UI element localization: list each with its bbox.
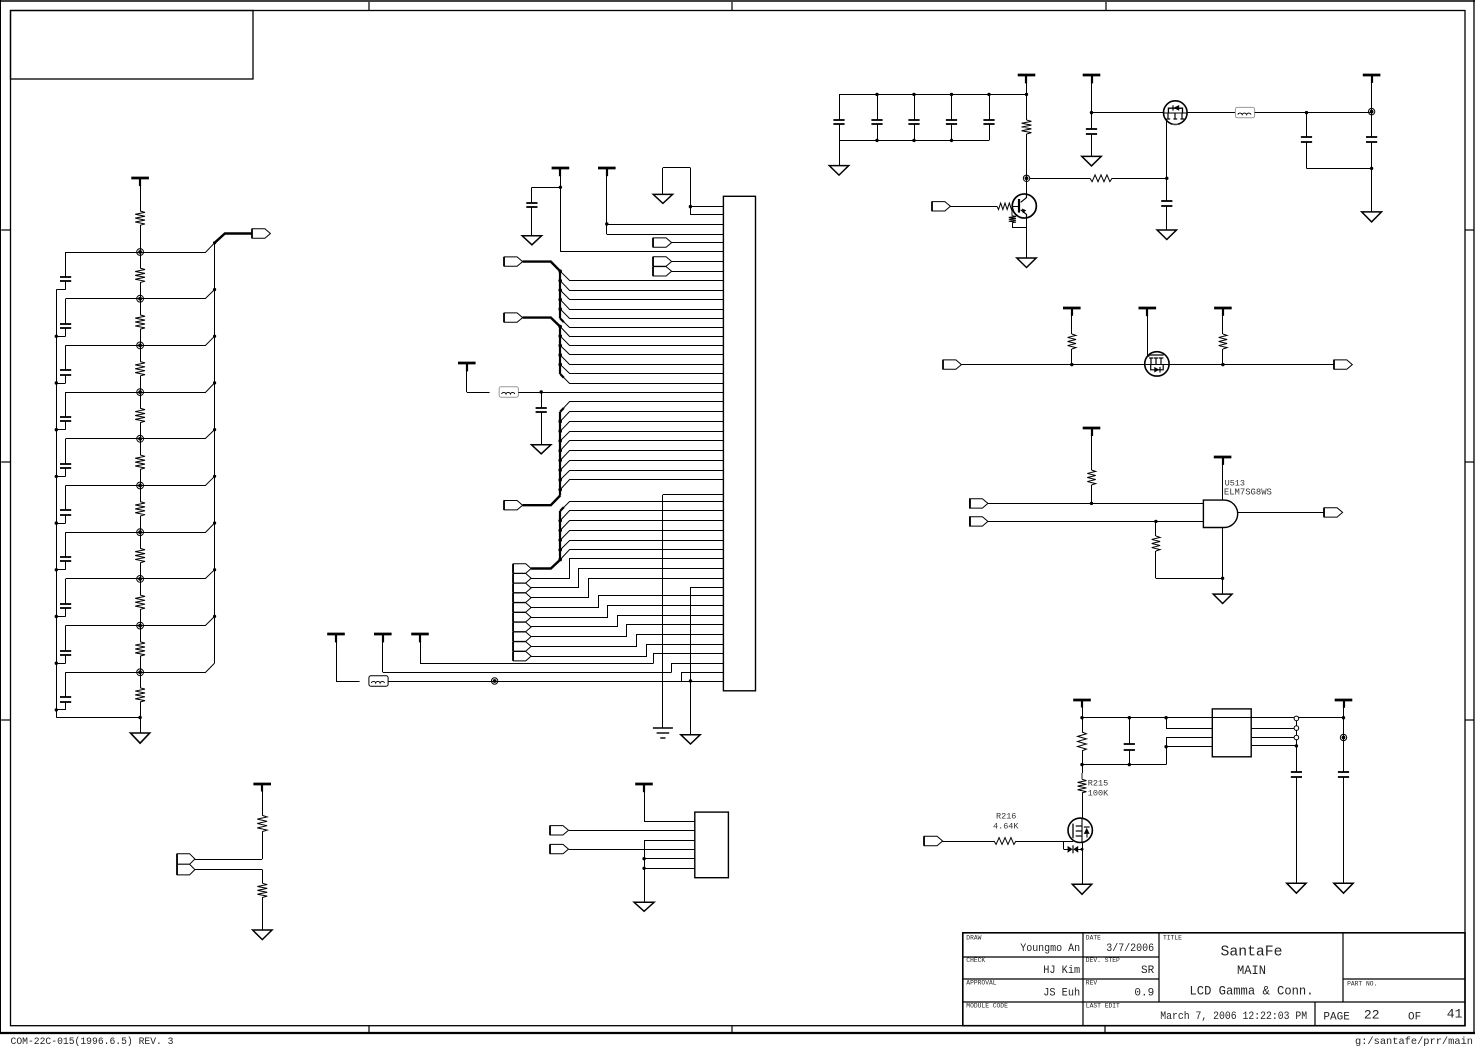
power rail Vv2 (374, 633, 392, 636)
connector output g_out (1324, 508, 1342, 517)
wire riser B (672, 664, 724, 673)
node V5 (137, 435, 144, 442)
wire drain (1166, 120, 1168, 202)
capacitor Cb1 (839, 94, 841, 119)
wire stair (531, 616, 723, 627)
junction (213, 475, 216, 478)
power rail Vv3 (411, 633, 429, 636)
wire (663, 494, 724, 496)
connector input base (932, 202, 950, 211)
wire node2 right (140, 290, 215, 299)
junction (1080, 763, 1083, 766)
connector input g_in1 (970, 499, 988, 508)
ground (522, 236, 541, 245)
power rail g1 (1083, 427, 1101, 430)
junction (605, 222, 608, 225)
ground (1157, 230, 1176, 240)
capacitor C_lad6 (65, 486, 67, 511)
wire branch (560, 511, 723, 521)
junction (213, 521, 216, 524)
resistor R_lad8 (135, 595, 145, 609)
wire (140, 672, 142, 688)
connector input bc1 (550, 826, 568, 835)
wire node4 right (140, 383, 215, 393)
wire (466, 363, 468, 392)
wire branch (560, 521, 723, 531)
wire (140, 439, 142, 455)
svg-text:PAGE: PAGE (1323, 1011, 1350, 1023)
wire branch (560, 271, 723, 280)
wire (140, 376, 142, 392)
junction (558, 363, 562, 367)
wire node6 left (66, 485, 141, 487)
wire pin2R (1251, 728, 1296, 730)
resistor R_lad2 (135, 315, 145, 329)
svg-text:4.64K: 4.64K (993, 822, 1019, 832)
capacitor C_br (1129, 718, 1131, 744)
junction (55, 381, 58, 384)
junction (875, 93, 878, 96)
junction (1370, 167, 1373, 170)
wire (140, 423, 142, 439)
wire (1255, 112, 1372, 114)
wire branch (560, 451, 723, 461)
op-amp U513 AND gate (1203, 500, 1237, 527)
wire (644, 784, 646, 821)
wire (140, 626, 142, 642)
wire (140, 345, 142, 361)
wire node1 right (140, 243, 215, 253)
connector input gate_br (924, 836, 942, 845)
junction (1080, 716, 1083, 719)
wire (262, 898, 264, 931)
ground (1334, 883, 1353, 893)
ground (1082, 156, 1101, 166)
wire thick feeder D (531, 560, 560, 569)
resistor R215 (1081, 773, 1083, 779)
node V3 (137, 342, 144, 349)
connector output rowR (1334, 360, 1352, 369)
svg-text:TITLE: TITLE (1163, 935, 1182, 942)
wire branch (560, 336, 723, 345)
capacitor C_v5 (1086, 128, 1097, 130)
wire ladder right bus (214, 243, 216, 663)
connector input pin8 (653, 267, 671, 276)
title area top-left box (11, 11, 254, 80)
bus D (559, 511, 561, 560)
wire stair (531, 569, 723, 588)
junction (1128, 716, 1131, 719)
junction (55, 475, 58, 478)
wire node5 left (66, 438, 141, 440)
junction (138, 716, 141, 719)
resistor R_b (997, 203, 1013, 209)
node V10 (137, 669, 144, 676)
power rail VDD ladder (131, 177, 149, 180)
junction (1090, 502, 1093, 505)
capacitor C_lad10 (65, 672, 67, 697)
wire node9 left (66, 625, 141, 627)
junction (213, 615, 216, 618)
wire stair (531, 645, 723, 657)
resistor R_g (1090, 175, 1112, 182)
junction (558, 279, 562, 283)
connector input g_in2 (970, 517, 988, 526)
wire to gate (1030, 178, 1090, 180)
connector CN5 body (723, 196, 755, 691)
wire (1071, 308, 1073, 334)
IC CN_bc body (695, 812, 729, 878)
connector input pin7 (653, 257, 671, 266)
transistor Q_m MOSFET mid (1145, 352, 1169, 376)
wire (1166, 737, 1168, 764)
wire pin1R (1251, 717, 1343, 719)
power rail g2 (1214, 456, 1232, 459)
bus A (559, 271, 561, 318)
capacitor Cb5 (989, 94, 991, 119)
wire (140, 609, 142, 625)
ground (1362, 212, 1382, 222)
wire (1343, 700, 1345, 772)
wire node8 right (140, 570, 215, 579)
junction (642, 867, 645, 870)
capacitor Cb2 (877, 94, 879, 119)
capacitor C_lad5 (65, 439, 67, 464)
wire (140, 469, 142, 485)
junction (213, 428, 216, 431)
svg-text:LAST EDIT: LAST EDIT (1086, 1003, 1120, 1010)
capacitor C_vcc (532, 187, 561, 189)
wire branch (560, 432, 723, 441)
junction (558, 529, 562, 533)
wire (1166, 718, 1168, 729)
junction (558, 468, 562, 472)
wire (140, 283, 142, 299)
svg-text:SR: SR (1141, 965, 1155, 977)
node V6 (137, 482, 144, 489)
junction (558, 269, 562, 273)
ferrite bead FB3 (1235, 107, 1254, 117)
junction (558, 298, 562, 302)
junction (1164, 745, 1167, 748)
junction (213, 241, 216, 244)
junction (55, 662, 58, 665)
wire (140, 486, 142, 502)
junction (55, 335, 58, 338)
wire (518, 392, 723, 394)
wire thick feeder B (523, 318, 561, 327)
junction (1305, 111, 1308, 114)
wire branch (560, 422, 723, 432)
junction (558, 325, 562, 329)
ground (634, 902, 654, 911)
resistor R_bottom ladder (135, 688, 145, 702)
resistor R_lad1 (135, 268, 145, 282)
resistor R_lad6 (135, 502, 145, 516)
wire branch (560, 441, 723, 451)
svg-text:R216: R216 (996, 812, 1016, 822)
junction (558, 353, 562, 357)
bus C (559, 412, 561, 496)
junction (1342, 716, 1345, 719)
resistor R_lad7 (135, 548, 145, 562)
svg-text:Youngmo An: Youngmo An (1020, 943, 1080, 955)
resistor R_lad9 (135, 642, 145, 656)
wire (1092, 112, 1164, 114)
junction (950, 139, 953, 142)
wire node7 right (140, 523, 215, 533)
ground (532, 445, 551, 454)
wire (1371, 75, 1373, 137)
connector stack pent 3 (513, 583, 531, 592)
power rail VIN (1018, 74, 1036, 77)
wire gate gnd (1222, 528, 1224, 595)
wire branch (560, 541, 723, 550)
junction (213, 381, 216, 384)
wire (560, 168, 562, 252)
wire branch (560, 550, 723, 560)
resistor R_br (1078, 732, 1087, 751)
junction (558, 558, 562, 562)
junction (1165, 177, 1168, 180)
node V9 (137, 622, 144, 629)
svg-text:CHECK: CHECK (966, 957, 985, 964)
wire (140, 299, 142, 315)
wire branch (560, 502, 723, 511)
junction (912, 139, 915, 142)
ground ladder (140, 718, 142, 734)
junction (213, 335, 216, 338)
junction (558, 519, 562, 523)
junction (558, 420, 562, 424)
power rail br1 (1073, 699, 1091, 702)
junction (1295, 744, 1298, 747)
node V7 (137, 529, 144, 536)
capacitor Cb3 (914, 94, 916, 119)
connector OUT ladder (252, 229, 270, 238)
wire source (1082, 842, 1084, 884)
ground (681, 735, 700, 744)
wire stair (531, 596, 723, 608)
wire (140, 329, 142, 345)
wire (1147, 308, 1149, 355)
connector stack pent 2 (513, 574, 531, 583)
resistor R_e (1011, 206, 1013, 216)
ground (1072, 884, 1091, 894)
wire cap column (1296, 718, 1298, 772)
transistor Q_br MOSFET (1068, 818, 1092, 842)
wire node5 right (140, 430, 215, 439)
connector stack pent 10 (513, 651, 531, 660)
wire (569, 849, 695, 851)
capacitor C_lad1 (65, 252, 67, 277)
wire pin1 (690, 206, 723, 208)
junction (558, 429, 562, 433)
wire pin4R (1251, 745, 1296, 747)
power rail VCC mid (552, 167, 570, 170)
wire (1082, 700, 1084, 733)
svg-text:R215: R215 (1088, 779, 1108, 789)
wire node10 left (66, 672, 141, 674)
capacitor C_lad4 (65, 392, 67, 417)
wire (195, 869, 262, 871)
junction (950, 93, 953, 96)
wire cap bank bottom (839, 140, 989, 142)
capacitor C_r2 (1338, 771, 1349, 773)
wire (262, 832, 264, 859)
power rail Vv1 (327, 633, 345, 636)
resistor R_bl2 (257, 883, 267, 897)
svg-text:MAIN: MAIN (1237, 963, 1266, 978)
node br (1340, 734, 1346, 740)
svg-text:3/7/2006: 3/7/2006 (1106, 943, 1154, 955)
wire node8 left (66, 578, 141, 580)
capacitor C_r1 (1291, 771, 1302, 773)
wire branch (560, 471, 723, 480)
ground (839, 140, 841, 165)
junction (55, 428, 58, 431)
junction (689, 679, 692, 682)
wire pin2 (690, 214, 723, 216)
wire (961, 364, 1334, 366)
junction (558, 334, 562, 338)
wire (1222, 457, 1224, 500)
ground (1287, 883, 1306, 893)
wire (1026, 134, 1028, 195)
resistor R_lad5 (135, 455, 145, 469)
junction (558, 478, 562, 482)
diode D_prot TVS (1068, 846, 1073, 853)
connector input bl2 (177, 864, 195, 875)
wire gnd pin (691, 587, 724, 589)
wire (262, 784, 264, 816)
connector input bc2 (550, 844, 568, 853)
svg-text:g:/santafe/prr/main: g:/santafe/prr/main (1355, 1036, 1473, 1047)
wire node6 right (140, 476, 215, 485)
svg-text:SantaFe: SantaFe (1221, 944, 1283, 961)
connector input P_A (504, 257, 522, 266)
node V1 (137, 249, 144, 256)
wire (1222, 308, 1224, 334)
ground (1017, 258, 1036, 268)
wire gnd pins (644, 840, 695, 842)
wire branch (560, 412, 723, 422)
wire thick to output (215, 234, 252, 243)
resistor R_lad4 (135, 408, 145, 422)
junction (55, 521, 58, 524)
capacitor C_lad3 (65, 345, 67, 370)
node V8 (137, 576, 144, 583)
wire branch (560, 300, 723, 310)
junction (1154, 520, 1157, 523)
capacitor Cb4 (951, 94, 953, 119)
wire (140, 516, 142, 532)
resistor R_u1 (1087, 470, 1095, 485)
wire branch (560, 281, 723, 291)
junction (558, 488, 562, 492)
wire node1 left (66, 252, 141, 254)
frame tick marks (368, 2, 370, 11)
node col (1023, 175, 1029, 181)
wire stair (531, 625, 723, 637)
connector stack pent 5 (513, 603, 531, 612)
no-connect rings (1294, 716, 1299, 721)
svg-text:COM-22C-015(1996.6.5) REV. 3: COM-22C-015(1996.6.5) REV. 3 (11, 1036, 174, 1047)
transistor Q_b BJT (1012, 194, 1036, 218)
wire (1026, 75, 1028, 120)
wire vcc row (1082, 717, 1344, 719)
wire riser C (654, 654, 724, 664)
svg-text:41: 41 (1447, 1006, 1463, 1021)
connector stack pent 8 (513, 632, 531, 641)
wire node2 left (66, 298, 141, 300)
capacitor C_o2 (1366, 136, 1377, 138)
resistor R216 (994, 838, 1016, 845)
node V4 (137, 389, 144, 396)
junction (213, 288, 216, 291)
wire (140, 178, 142, 211)
wire (950, 206, 997, 208)
junction (1164, 716, 1167, 719)
wire stair (531, 606, 723, 618)
svg-text:DATE: DATE (1086, 935, 1101, 942)
wire (140, 532, 142, 548)
capacitor bank top wire (839, 94, 1027, 96)
junction (558, 538, 562, 542)
node V2 (137, 295, 144, 302)
wire branch (560, 461, 723, 471)
connector stack pent 6 (513, 613, 531, 622)
wire branch (560, 290, 723, 299)
wire branch (560, 309, 723, 318)
connector stack pent 9 (513, 642, 531, 651)
power rail VCOM (458, 362, 476, 365)
wire branch (560, 402, 723, 412)
resistor R_top ladder (135, 211, 145, 225)
wire (1091, 75, 1093, 129)
junction (540, 390, 543, 393)
wire node7 left (66, 532, 141, 534)
capacitor C_lad9 (65, 626, 67, 651)
wire pin4 (607, 234, 724, 236)
svg-text:ELM7SG8WS: ELM7SG8WS (1224, 488, 1272, 498)
wire stair (531, 635, 723, 647)
wire branch (560, 364, 723, 373)
wire stair (531, 579, 723, 598)
junction (558, 439, 562, 443)
power rail pr_gate (1139, 307, 1157, 310)
svg-text:REV: REV (1086, 980, 1098, 987)
bus B (559, 327, 561, 374)
wire node3 right (140, 336, 215, 345)
wire cap ground bus (56, 290, 58, 718)
capacitor C_lad2 (65, 299, 67, 324)
junction (55, 708, 58, 711)
wire emitter (1026, 218, 1028, 258)
wire node9 right (140, 616, 215, 625)
junction (558, 288, 562, 292)
wire (569, 830, 695, 832)
wire stack left bus (513, 564, 515, 661)
wire (140, 392, 142, 408)
power rail pr1 (1063, 307, 1081, 310)
wire branch (560, 374, 723, 384)
connector stack pent 7 (513, 622, 531, 631)
ground net top (663, 167, 691, 169)
wire (382, 634, 384, 672)
wire (420, 634, 422, 663)
wire stair (531, 559, 723, 579)
